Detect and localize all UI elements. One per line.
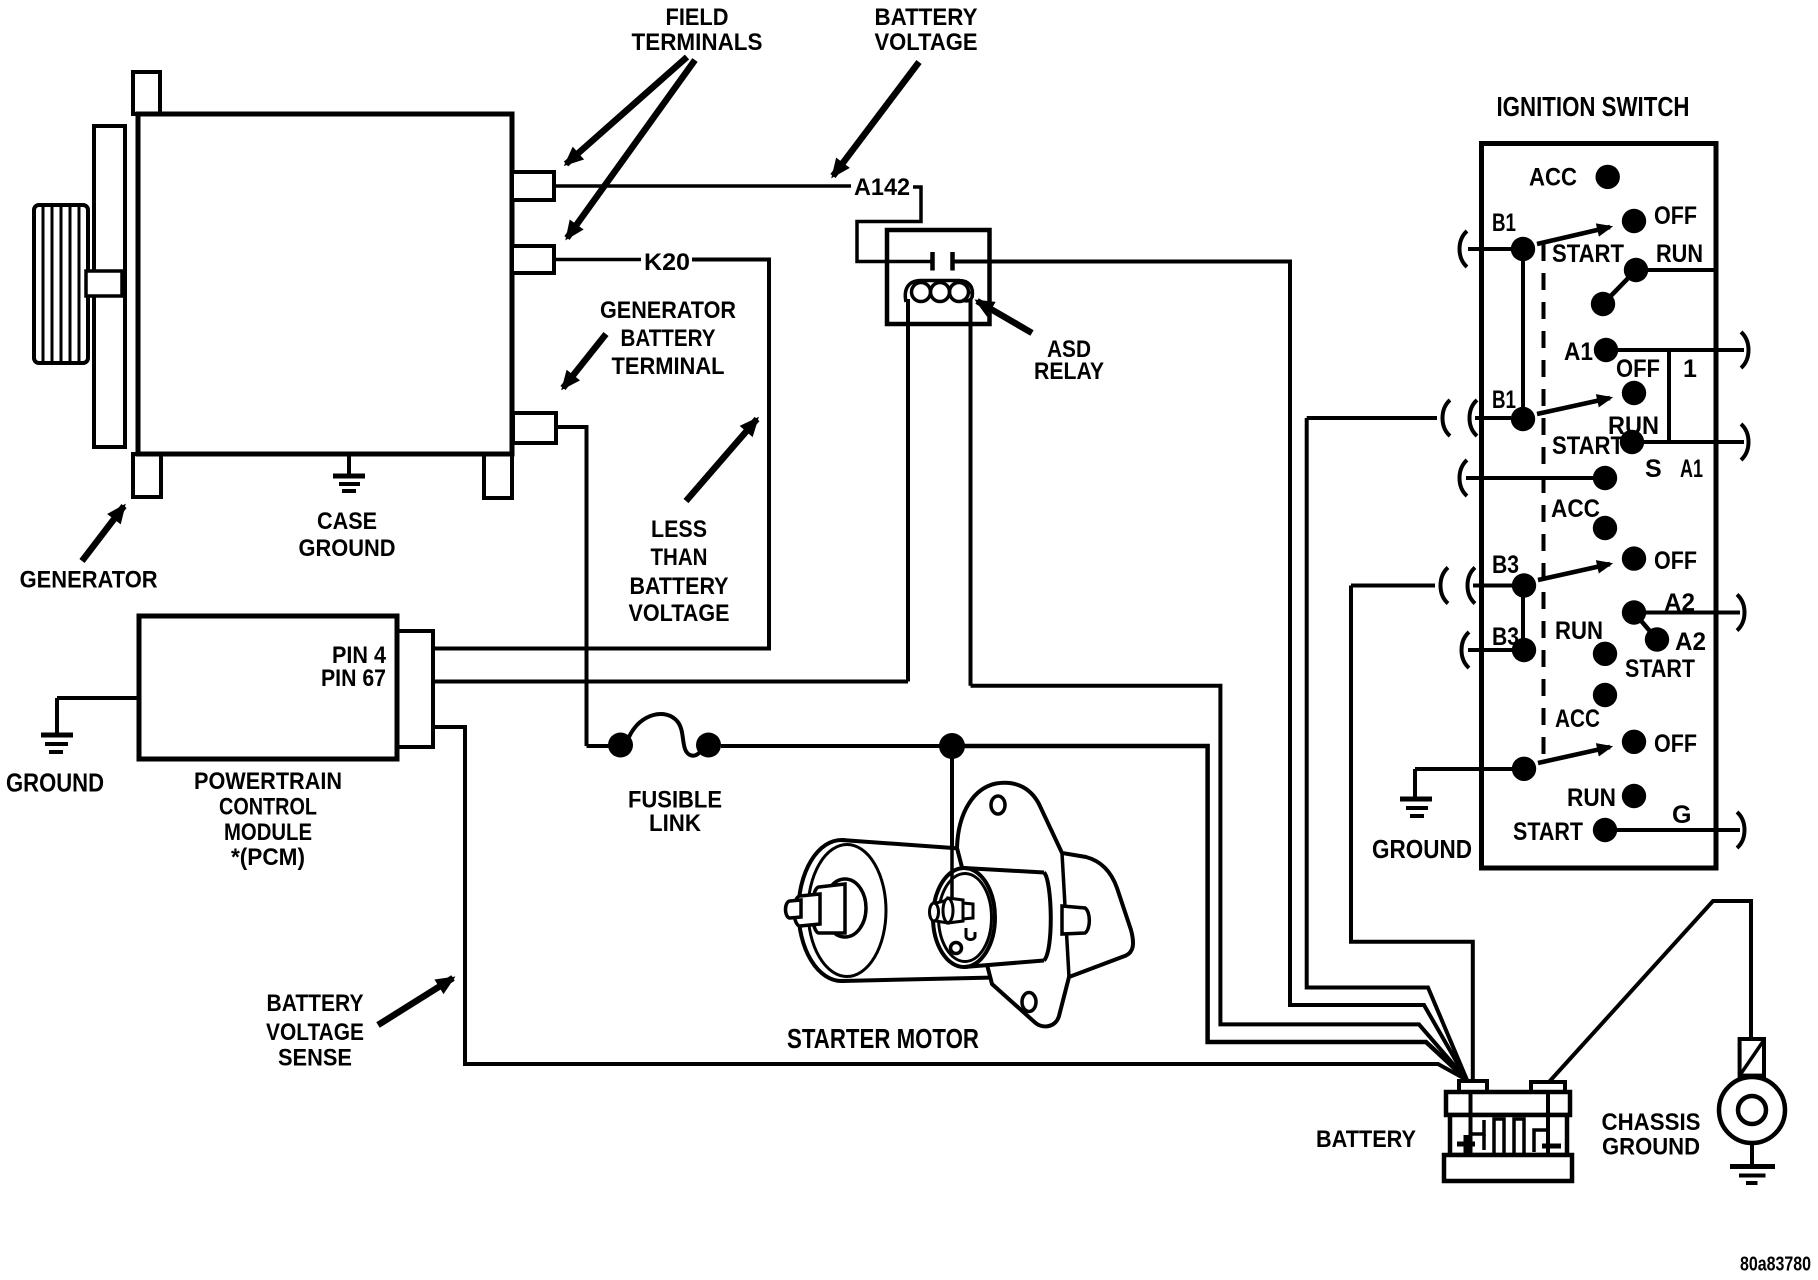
svg-text:START: START — [1552, 240, 1624, 268]
svg-text:PIN 67: PIN 67 — [321, 665, 386, 692]
svg-text:BATTERY: BATTERY — [1316, 1126, 1416, 1153]
svg-text:VOLTAGE: VOLTAGE — [266, 1019, 364, 1046]
svg-text:GENERATOR: GENERATOR — [600, 297, 736, 324]
svg-text:A2: A2 — [1664, 589, 1695, 617]
svg-text:OFF: OFF — [1654, 547, 1697, 575]
svg-text:START: START — [1625, 655, 1695, 683]
svg-text:OFF: OFF — [1616, 355, 1660, 383]
svg-text:IGNITION SWITCH: IGNITION SWITCH — [1497, 91, 1690, 122]
svg-text:BATTERY: BATTERY — [267, 990, 364, 1017]
svg-text:B3: B3 — [1492, 551, 1519, 579]
svg-text:BATTERY: BATTERY — [630, 573, 729, 600]
svg-text:ACC: ACC — [1529, 164, 1577, 192]
svg-text:S: S — [1645, 455, 1662, 483]
svg-text:G: G — [1672, 801, 1691, 829]
svg-text:RELAY: RELAY — [1034, 358, 1104, 385]
svg-text:POWERTRAIN: POWERTRAIN — [194, 768, 342, 795]
svg-text:GROUND: GROUND — [6, 768, 104, 798]
svg-text:LINK: LINK — [649, 810, 702, 837]
svg-text:RUN: RUN — [1567, 784, 1616, 812]
svg-text:A1: A1 — [1564, 338, 1593, 366]
svg-text:80a83780: 80a83780 — [1740, 1254, 1811, 1276]
svg-text:START: START — [1513, 818, 1583, 846]
svg-text:A2: A2 — [1675, 628, 1706, 656]
svg-text:RUN: RUN — [1656, 240, 1703, 268]
svg-text:GROUND: GROUND — [299, 535, 396, 562]
svg-text:ACC: ACC — [1555, 705, 1600, 733]
svg-text:STARTER MOTOR: STARTER MOTOR — [787, 1023, 979, 1054]
svg-text:B1: B1 — [1492, 386, 1516, 414]
svg-text:*(PCM): *(PCM) — [231, 844, 305, 871]
svg-text:K20: K20 — [644, 249, 690, 276]
svg-text:MODULE: MODULE — [224, 819, 312, 846]
svg-text:1: 1 — [1683, 355, 1697, 383]
svg-text:RUN: RUN — [1555, 617, 1603, 645]
svg-text:OFF: OFF — [1654, 730, 1697, 758]
svg-text:VOLTAGE: VOLTAGE — [875, 29, 978, 56]
svg-text:VOLTAGE: VOLTAGE — [629, 600, 730, 627]
svg-text:CASE: CASE — [317, 508, 377, 535]
svg-text:CHASSIS: CHASSIS — [1602, 1109, 1701, 1136]
svg-text:FIELD: FIELD — [666, 4, 729, 31]
svg-text:LESS: LESS — [651, 516, 707, 543]
svg-text:TERMINALS: TERMINALS — [632, 29, 763, 56]
svg-text:BATTERY: BATTERY — [875, 4, 978, 31]
svg-text:OFF: OFF — [1654, 202, 1697, 230]
svg-text:START: START — [1552, 432, 1624, 460]
svg-text:ACC: ACC — [1551, 495, 1600, 523]
svg-text:B1: B1 — [1492, 209, 1516, 237]
svg-text:A1: A1 — [1680, 455, 1703, 483]
svg-text:GENERATOR: GENERATOR — [20, 567, 158, 594]
svg-text:GROUND: GROUND — [1602, 1134, 1700, 1161]
svg-text:B3: B3 — [1492, 623, 1519, 651]
svg-text:TERMINAL: TERMINAL — [612, 353, 725, 380]
svg-text:A142: A142 — [854, 174, 910, 201]
svg-text:GROUND: GROUND — [1372, 834, 1472, 864]
svg-text:BATTERY: BATTERY — [621, 325, 716, 352]
svg-text:SENSE: SENSE — [278, 1045, 352, 1072]
svg-text:THAN: THAN — [651, 544, 708, 571]
svg-text:CONTROL: CONTROL — [219, 794, 317, 821]
